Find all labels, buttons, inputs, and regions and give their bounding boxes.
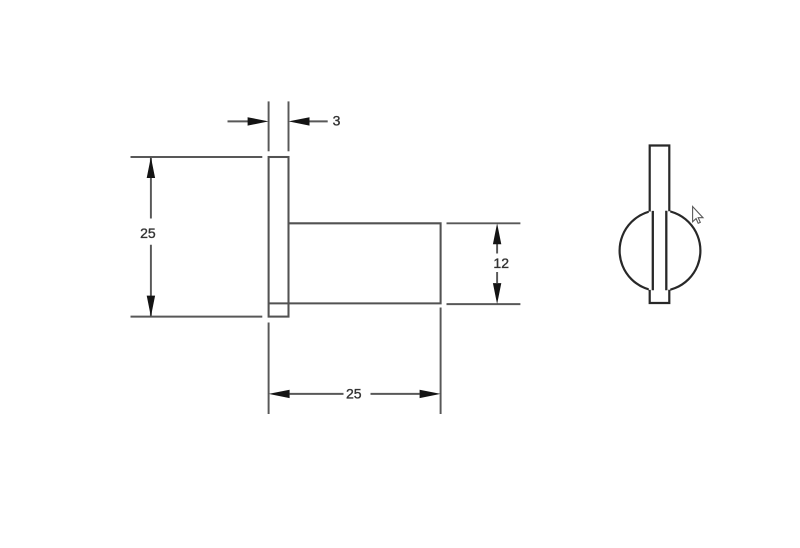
dimension 12: top extension line [447,222,521,224]
dimension 3: left arrowhead [248,117,269,125]
dimension 12: up arrowhead [493,223,501,244]
dimension 3: right leader tail [310,120,328,122]
side view: plate (vertical bar) [269,157,289,317]
svg-text:25: 25 [140,225,156,241]
svg-text:25: 25 [346,385,362,401]
dimension 3: extension line right [288,101,290,151]
dimension 25 left: up arrowhead [147,157,155,178]
dimension 25 left: bottom extension line [131,316,263,318]
dimension 25 bottom: dimension line right segment [371,393,420,395]
dimension 12: dimension line upper segment [496,244,498,254]
dimension 25 left: dimension line upper segment [150,157,152,219]
dimension 3: extension line left [268,101,270,151]
dimension 25 bottom: right extension line [440,308,442,415]
front view: vertical bar outline [650,146,670,304]
dimension 25 bottom: right arrowhead [420,390,441,398]
front view: circle (knob disc) [620,210,701,291]
dimension 25 bottom: left extension line [268,323,270,415]
dimension 25 bottom: dimension line left segment [290,393,344,395]
dimension 12: bottom extension line [447,303,521,305]
dimension 3: left leader tail [228,120,249,122]
side view: arm rectangle [269,223,441,303]
front view: bar fill mask [649,145,670,304]
svg-text:3: 3 [333,113,341,129]
mouse cursor [693,207,703,224]
dimension 12: dimension line lower segment [496,272,498,283]
front view: left chord edge [652,211,654,290]
svg-text:12: 12 [493,255,509,271]
dimension 25 left: down arrowhead [147,296,155,317]
dimension 25 left: dimension line lower segment [150,245,152,317]
dimension 3: right arrowhead [289,117,310,125]
dimension 25 bottom: left arrowhead [269,390,290,398]
dimension 25 left: top extension line [131,156,263,158]
front view: right chord edge [665,211,667,290]
dimension 12: down arrowhead [493,283,501,304]
